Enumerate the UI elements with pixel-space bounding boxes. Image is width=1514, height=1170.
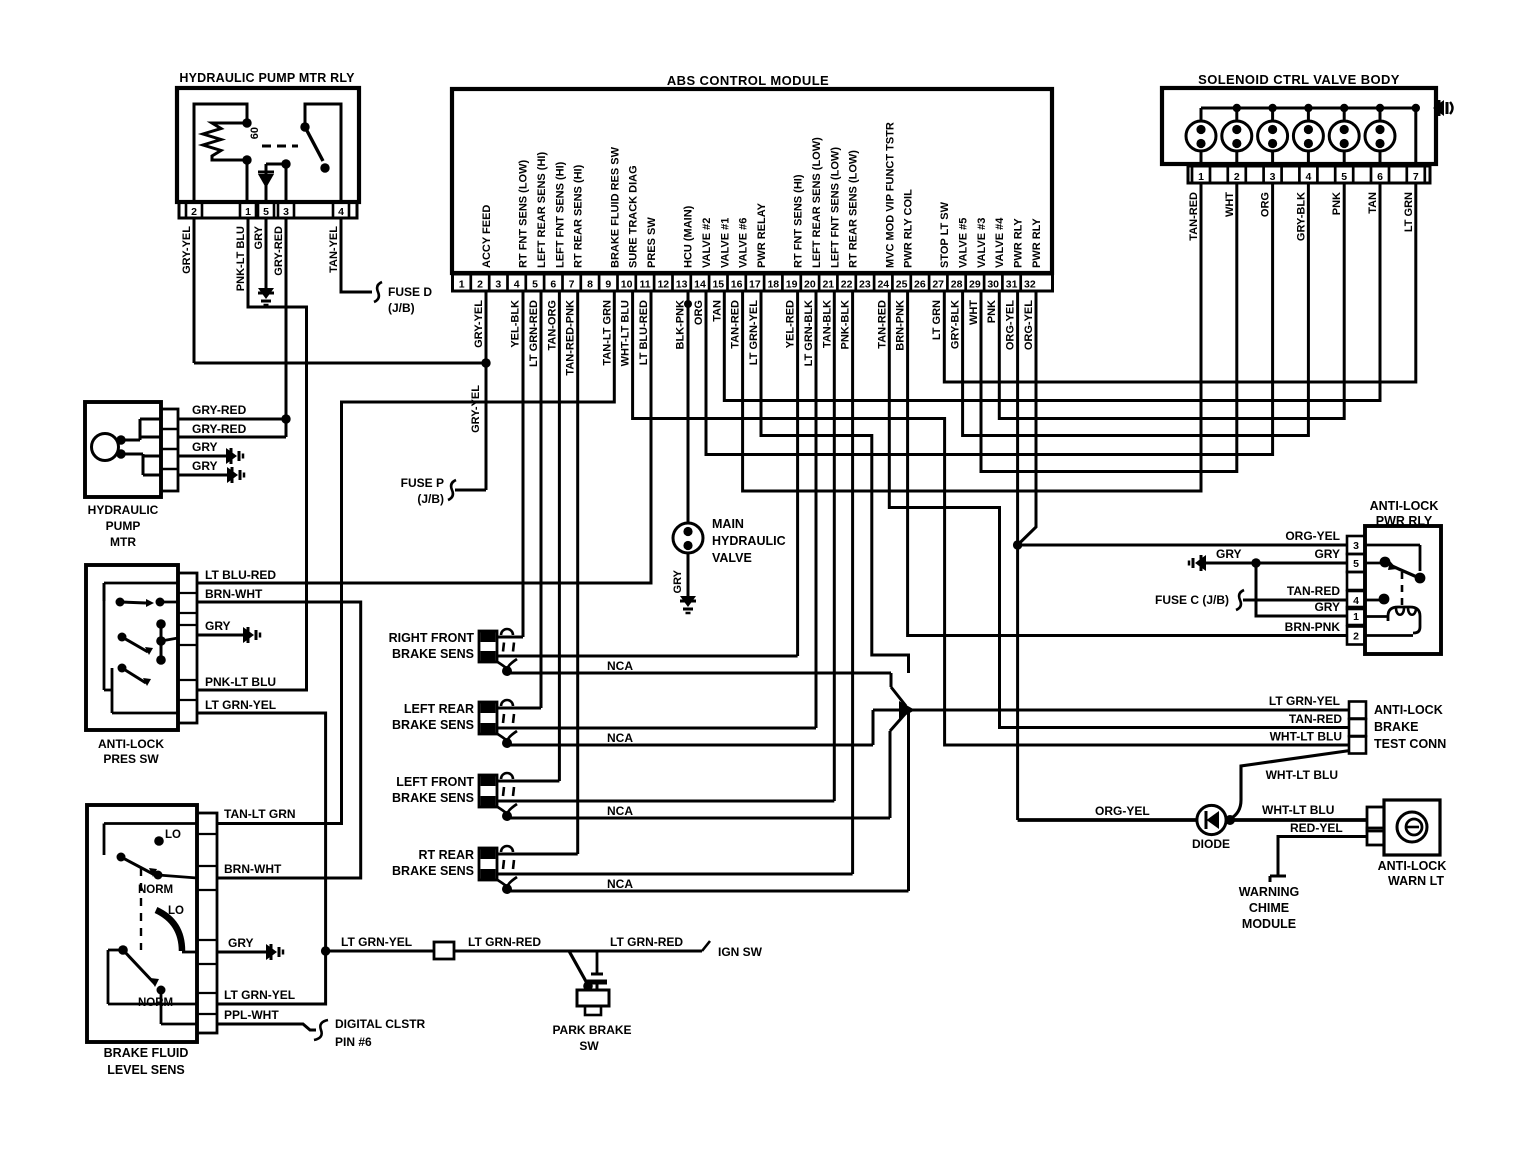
ABS pin 11 LT BLU-RED wire to pressure switch	[197, 291, 651, 583]
svg-text:GRY-RED: GRY-RED	[192, 403, 247, 417]
relay switch contacts	[305, 104, 341, 202]
svg-text:LT BLU-RED: LT BLU-RED	[638, 300, 650, 365]
svg-text:FUSE C (J/B): FUSE C (J/B)	[1155, 593, 1229, 607]
svg-text:ANTI-LOCK: ANTI-LOCK	[98, 737, 164, 751]
PPL-WHT wire to digital cluster	[217, 1024, 316, 1030]
pump GRY ground wire lower	[178, 474, 227, 477]
svg-text:ORG-YEL: ORG-YEL	[1095, 804, 1150, 818]
svg-text:GRY-YEL: GRY-YEL	[470, 385, 482, 433]
svg-text:TAN-RED: TAN-RED	[876, 300, 888, 349]
svg-text:GRY: GRY	[192, 440, 218, 454]
svg-text:NCA: NCA	[607, 659, 633, 673]
ABS module pin strip pins 1-32	[453, 274, 1053, 291]
brake fluid sensor float switches	[104, 822, 197, 825]
svg-text:BRN-PNK: BRN-PNK	[1285, 620, 1341, 634]
svg-text:IGN SW: IGN SW	[718, 945, 763, 959]
svg-text:TAN: TAN	[1367, 192, 1379, 214]
svg-text:DIGITAL CLSTR: DIGITAL CLSTR	[335, 1017, 426, 1031]
ABS pin 31 ORG-YEL wire	[1016, 291, 1019, 820]
svg-text:LT GRN-RED: LT GRN-RED	[468, 935, 541, 949]
svg-text:TAN-ORG: TAN-ORG	[546, 300, 558, 351]
power relay pin1 GRY wire	[1256, 563, 1347, 616]
svg-text:TAN-YEL: TAN-YEL	[328, 226, 340, 273]
svg-text:ORG: ORG	[1260, 192, 1272, 217]
svg-text:LO: LO	[168, 905, 184, 917]
svg-text:RT REAR: RT REAR	[418, 848, 474, 862]
svg-text:GRY: GRY	[192, 459, 218, 473]
svg-text:PWR RLY: PWR RLY	[1031, 218, 1043, 268]
main hydraulic valve GRY ground wire	[687, 553, 690, 596]
svg-text:WARN LT: WARN LT	[1388, 874, 1444, 888]
left front brake sensor signal wire	[497, 800, 834, 803]
svg-text:ORG-YEL: ORG-YEL	[1023, 300, 1035, 350]
svg-text:LT GRN-YEL: LT GRN-YEL	[748, 300, 760, 365]
LT GRN-YEL wire pressure switch to junction	[197, 713, 326, 1004]
svg-text:ORG-YEL: ORG-YEL	[1005, 300, 1017, 350]
svg-text:13: 13	[676, 279, 688, 291]
inline connector C1	[434, 942, 454, 959]
svg-text:LT GRN-RED: LT GRN-RED	[610, 935, 683, 949]
svg-text:1: 1	[1198, 171, 1204, 183]
solenoid body chassis ground symbol	[1433, 100, 1444, 116]
svg-text:23: 23	[859, 279, 871, 291]
svg-text:PIN #6: PIN #6	[335, 1035, 372, 1049]
pressure switch contacts	[104, 582, 178, 585]
svg-text:LEFT REAR SENS (LOW): LEFT REAR SENS (LOW)	[811, 137, 823, 268]
svg-text:1: 1	[1353, 611, 1359, 623]
svg-text:NCA: NCA	[607, 877, 633, 891]
svg-text:VALVE #1: VALVE #1	[719, 218, 731, 268]
svg-text:4: 4	[338, 206, 344, 218]
svg-text:2: 2	[1353, 631, 1359, 643]
relay pin1 PNK-LT BLU wire to pressure switch	[197, 218, 307, 690]
svg-text:MTR: MTR	[110, 535, 136, 549]
rt rear brake sensor	[479, 848, 497, 880]
left front NCA drain wire	[507, 817, 890, 820]
svg-text:LT GRN-YEL: LT GRN-YEL	[205, 698, 276, 712]
svg-text:GRY: GRY	[205, 619, 231, 633]
svg-text:31: 31	[1006, 279, 1018, 291]
solenoid ctrl valve body box	[1162, 88, 1436, 164]
svg-text:21: 21	[822, 279, 834, 291]
svg-text:RT FNT SENS (HI): RT FNT SENS (HI)	[793, 174, 805, 268]
relay pin strip pins 2 1 5 3 4	[179, 202, 357, 218]
svg-text:30: 30	[987, 279, 999, 291]
svg-text:12: 12	[657, 279, 669, 291]
svg-text:32: 32	[1024, 279, 1036, 291]
svg-text:LEFT FNT SENS (LOW): LEFT FNT SENS (LOW)	[829, 147, 841, 268]
svg-text:VALVE #4: VALVE #4	[994, 217, 1006, 268]
svg-text:ANTI-LOCK: ANTI-LOCK	[1374, 703, 1443, 717]
diode CR2	[1197, 805, 1226, 834]
svg-text:TAN-RED-PNK: TAN-RED-PNK	[565, 300, 577, 376]
svg-text:WHT: WHT	[968, 300, 980, 325]
svg-text:YEL-RED: YEL-RED	[785, 300, 797, 348]
ABS pin 6 TAN-ORG wire to left front sensor	[558, 291, 561, 781]
svg-text:SW: SW	[579, 1039, 599, 1053]
svg-text:TAN-LT GRN: TAN-LT GRN	[601, 300, 613, 366]
svg-text:RIGHT FRONT: RIGHT FRONT	[389, 631, 475, 645]
pressure switch connector	[178, 573, 197, 723]
svg-text:TAN-BLK: TAN-BLK	[821, 300, 833, 348]
svg-text:1: 1	[245, 206, 251, 218]
svg-text:BRAKE SENS: BRAKE SENS	[392, 718, 474, 732]
svg-text:2: 2	[477, 279, 483, 291]
svg-text:VALVE #5: VALVE #5	[958, 218, 970, 268]
svg-text:VALVE #2: VALVE #2	[701, 218, 713, 268]
svg-text:ORG-YEL: ORG-YEL	[1285, 529, 1340, 543]
svg-text:PNK: PNK	[986, 300, 998, 323]
pump GRY-RED wire upper	[178, 418, 286, 421]
svg-text:RT REAR SENS (LOW): RT REAR SENS (LOW)	[848, 150, 860, 268]
LT GRN-RED wire to ign switch	[597, 950, 702, 953]
svg-text:TAN-LT GRN: TAN-LT GRN	[224, 807, 296, 821]
svg-text:LT GRN-YEL: LT GRN-YEL	[1269, 694, 1340, 708]
ORG-YEL junction node	[1013, 540, 1022, 549]
svg-text:PARK BRAKE: PARK BRAKE	[552, 1023, 631, 1037]
GRY-YEL wire to fuse P	[455, 489, 486, 492]
park brake switch	[569, 951, 588, 985]
svg-text:TAN-RED: TAN-RED	[1287, 584, 1340, 598]
svg-text:6: 6	[1377, 171, 1383, 183]
svg-text:PUMP: PUMP	[106, 519, 141, 533]
RED-YEL wire to warning chime	[1278, 837, 1367, 877]
svg-text:29: 29	[969, 279, 981, 291]
svg-text:LT GRN-YEL: LT GRN-YEL	[224, 988, 295, 1002]
svg-text:BRAKE SENS: BRAKE SENS	[392, 791, 474, 805]
svg-text:HYDRAULIC: HYDRAULIC	[712, 534, 786, 548]
svg-text:15: 15	[712, 279, 724, 291]
svg-text:17: 17	[749, 279, 761, 291]
svg-text:DIODE: DIODE	[1192, 837, 1230, 851]
svg-text:20: 20	[804, 279, 816, 291]
svg-text:ORG: ORG	[693, 300, 705, 325]
svg-text:TAN-RED: TAN-RED	[730, 300, 742, 349]
GRY-YEL junction node	[481, 358, 490, 367]
svg-text:MODULE: MODULE	[1242, 917, 1296, 931]
svg-text:RED-YEL: RED-YEL	[1290, 821, 1343, 835]
svg-text:7: 7	[569, 279, 575, 291]
svg-text:LEFT REAR: LEFT REAR	[404, 702, 474, 716]
svg-text:GRY: GRY	[228, 936, 254, 950]
svg-text:ANTI-LOCK: ANTI-LOCK	[1370, 499, 1439, 513]
merged shield wire to test connector	[912, 709, 1349, 712]
diode output junction	[1226, 818, 1367, 822]
svg-text:NORM: NORM	[138, 884, 173, 896]
svg-text:WHT-LT BLU: WHT-LT BLU	[620, 300, 632, 366]
rt rear NCA drain wire	[507, 890, 909, 893]
ABS pin 29 WHT wire to solenoid 2	[981, 183, 1237, 472]
solenoid body pin strip 1-7	[1188, 166, 1430, 183]
ABS pin 25 BRN-PNK wire to power relay pin 2	[908, 291, 1346, 636]
svg-text:BRN-PNK: BRN-PNK	[895, 300, 907, 351]
svg-text:GRY-RED: GRY-RED	[273, 226, 285, 276]
hydraulic pump motor box	[85, 402, 161, 497]
svg-text:MVC MOD VIP FUNCT TSTR: MVC MOD VIP FUNCT TSTR	[884, 122, 896, 268]
GRY-RED junction node	[281, 414, 290, 423]
ABS pin 4 YEL-BLK wire to right front sensor	[522, 291, 525, 637]
svg-text:HYDRAULIC: HYDRAULIC	[88, 503, 159, 517]
svg-text:GRY: GRY	[1314, 547, 1340, 561]
svg-text:3: 3	[283, 206, 289, 218]
svg-text:18: 18	[767, 279, 779, 291]
svg-text:LT GRN-YEL: LT GRN-YEL	[341, 935, 412, 949]
svg-text:PNK-LT BLU: PNK-LT BLU	[235, 226, 247, 291]
left front brake sensor	[479, 775, 497, 807]
svg-text:MAIN: MAIN	[712, 517, 744, 531]
svg-text:6: 6	[550, 279, 556, 291]
svg-text:3: 3	[1353, 540, 1359, 552]
svg-text:11: 11	[639, 279, 650, 291]
svg-text:28: 28	[951, 279, 963, 291]
ABS pin 16 TAN-RED wire to solenoid 1	[743, 183, 1201, 491]
svg-text:PRES SW: PRES SW	[646, 217, 658, 268]
brake fluid sensor connector	[197, 813, 217, 1033]
svg-text:27: 27	[932, 279, 944, 291]
svg-text:WHT: WHT	[1224, 192, 1236, 217]
svg-text:25: 25	[896, 279, 908, 291]
svg-text:STOP LT SW: STOP LT SW	[939, 201, 951, 268]
svg-text:ABS CONTROL MODULE: ABS CONTROL MODULE	[667, 73, 829, 88]
svg-text:LEFT FRONT: LEFT FRONT	[396, 775, 474, 789]
LT GRN-YEL junction node	[321, 946, 330, 955]
svg-text:YEL-BLK: YEL-BLK	[510, 300, 522, 348]
svg-text:RT FNT SENS (LOW): RT FNT SENS (LOW)	[518, 160, 530, 268]
svg-text:10: 10	[621, 279, 633, 291]
svg-text:3: 3	[1270, 171, 1276, 183]
svg-text:5: 5	[532, 279, 538, 291]
svg-text:26: 26	[914, 279, 926, 291]
pump GRY-RED wire lower	[178, 436, 286, 439]
svg-text:FUSE P: FUSE P	[401, 476, 444, 490]
svg-text:PPL-WHT: PPL-WHT	[224, 1008, 279, 1022]
ABS control module box	[452, 89, 1052, 273]
left rear brake sensor	[479, 702, 497, 734]
svg-text:TAN: TAN	[711, 300, 723, 322]
brake fluid level sensor box	[87, 805, 197, 1042]
svg-text:VALVE #6: VALVE #6	[738, 218, 750, 268]
svg-text:WHT-LT BLU: WHT-LT BLU	[1270, 730, 1342, 744]
svg-text:TAN-RED: TAN-RED	[1289, 712, 1342, 726]
svg-text:PWR RLY: PWR RLY	[1013, 218, 1025, 268]
svg-text:SOLENOID CTRL VALVE BODY: SOLENOID CTRL VALVE BODY	[1198, 72, 1400, 87]
svg-text:GRY-BLK: GRY-BLK	[1295, 192, 1307, 241]
svg-text:PNK: PNK	[1331, 192, 1343, 215]
ABS pin 13 BLK-PNK wire to main hydraulic valve	[687, 291, 690, 524]
svg-text:LT GRN-BLK: LT GRN-BLK	[803, 300, 815, 366]
svg-text:NCA: NCA	[607, 804, 633, 818]
right front brake sensor signal wire	[497, 655, 798, 658]
ABS pin 2 GRY-YEL wire	[485, 291, 488, 490]
svg-text:5: 5	[1353, 558, 1359, 570]
ABS pin 7 TAN-RED-PNK wire to rt rear sensor	[576, 291, 579, 854]
LT GRN-RED wire to park brake tap	[454, 950, 597, 953]
svg-text:BLK-PNK: BLK-PNK	[675, 300, 687, 350]
svg-text:LT GRN: LT GRN	[1403, 192, 1415, 232]
svg-text:16: 16	[731, 279, 743, 291]
svg-text:GRY: GRY	[672, 569, 684, 593]
svg-text:GRY-RED: GRY-RED	[192, 422, 247, 436]
svg-text:4: 4	[1353, 595, 1359, 607]
anti-lock warn light	[1384, 800, 1440, 855]
solenoid body top bus wire	[1201, 107, 1416, 110]
svg-text:2: 2	[191, 206, 197, 218]
svg-text:BRAKE FLUID RES SW: BRAKE FLUID RES SW	[609, 146, 621, 268]
svg-text:GRY: GRY	[1216, 547, 1242, 561]
left rear NCA drain wire	[507, 744, 873, 747]
svg-text:RT REAR SENS (HI): RT REAR SENS (HI)	[573, 164, 585, 268]
svg-text:FUSE D: FUSE D	[388, 285, 432, 299]
svg-text:GRY-YEL: GRY-YEL	[181, 226, 193, 274]
svg-text:4: 4	[1305, 171, 1311, 183]
brake fluid GRY ground wire	[217, 951, 266, 954]
power relay GRY junction node	[1251, 558, 1260, 567]
power relay GRY ground wire	[1195, 555, 1206, 571]
pump motor connector	[161, 409, 178, 491]
svg-text:HCU (MAIN): HCU (MAIN)	[683, 205, 695, 268]
svg-text:24: 24	[877, 279, 889, 291]
right front NCA drain wire	[507, 672, 891, 675]
svg-text:5: 5	[263, 206, 269, 218]
svg-text:2: 2	[1234, 171, 1240, 183]
main hydraulic valve solenoid	[673, 523, 703, 553]
relay pin4 TAN-YEL wire to fuse D	[341, 218, 372, 292]
svg-text:BRAKE SENS: BRAKE SENS	[392, 647, 474, 661]
relay pin5 GRY ground wire	[265, 218, 268, 288]
svg-text:14: 14	[694, 279, 706, 291]
svg-text:GRY-YEL: GRY-YEL	[473, 300, 485, 348]
ABS pin 27 LT GRN wire to solenoid 7	[944, 183, 1416, 382]
relay diode CR1	[285, 164, 288, 202]
svg-text:LO: LO	[165, 829, 181, 841]
ORG-YEL wire to diode	[1018, 818, 1197, 822]
svg-text:HYDRAULIC PUMP MTR RLY: HYDRAULIC PUMP MTR RLY	[179, 71, 355, 85]
svg-text:BRN-WHT: BRN-WHT	[205, 587, 263, 601]
svg-text:GRY-BLK: GRY-BLK	[950, 300, 962, 349]
svg-text:LEFT FNT SENS (HI): LEFT FNT SENS (HI)	[554, 161, 566, 268]
svg-text:WHT-LT BLU: WHT-LT BLU	[1262, 803, 1334, 817]
svg-text:LT GRN: LT GRN	[931, 300, 943, 340]
WHT-LT BLU branch wire to test connector	[1230, 751, 1350, 820]
svg-text:LEFT REAR SENS (HI): LEFT REAR SENS (HI)	[536, 152, 548, 268]
svg-text:VALVE: VALVE	[712, 551, 752, 565]
BRN-WHT wire pressure switch to brake fluid sensor	[197, 602, 361, 878]
ORG-YEL wire to power relay pin 3	[1018, 544, 1346, 547]
ABS pin 15 TAN wire to solenoid 6	[724, 183, 1380, 401]
svg-text:WHT-LT BLU: WHT-LT BLU	[1266, 768, 1338, 782]
svg-text:BRAKE SENS: BRAKE SENS	[392, 864, 474, 878]
svg-text:8: 8	[587, 279, 593, 291]
rt rear brake sensor signal wire	[497, 873, 853, 876]
svg-text:ACCY FEED: ACCY FEED	[481, 205, 493, 268]
ABS pin 10 WHT-LT BLU wire to test connector	[633, 291, 1349, 745]
power relay terminal pins 3 5 4 1 2	[1347, 536, 1365, 554]
svg-text:60: 60	[249, 127, 261, 139]
svg-text:3: 3	[495, 279, 501, 291]
anti-lock brake test connector	[1349, 702, 1366, 719]
pump motor M1 symbol	[92, 434, 119, 461]
power relay internal contacts	[1365, 544, 1420, 547]
svg-text:ANTI-LOCK: ANTI-LOCK	[1378, 859, 1447, 873]
svg-text:TEST CONN: TEST CONN	[1374, 737, 1446, 751]
ABS pin 32 ORG-YEL wire	[1018, 291, 1036, 545]
svg-text:PWR RLY COIL: PWR RLY COIL	[903, 189, 915, 268]
anti-lock power relay box	[1365, 526, 1441, 654]
svg-text:BRN-WHT: BRN-WHT	[224, 862, 282, 876]
svg-text:19: 19	[786, 279, 798, 291]
NCA merge junction with arrow	[890, 673, 893, 687]
relay coil K1	[194, 104, 247, 202]
svg-text:NCA: NCA	[607, 731, 633, 745]
svg-text:LEVEL SENS: LEVEL SENS	[107, 1063, 185, 1077]
svg-text:BRAKE: BRAKE	[1374, 720, 1418, 734]
pressure switch GRY ground wire	[197, 634, 243, 637]
hydraulic pump motor relay box	[177, 88, 359, 202]
svg-text:PRES SW: PRES SW	[103, 752, 159, 766]
ABS pin 14 ORG wire to solenoid 3	[706, 183, 1273, 455]
svg-text:TAN-RED: TAN-RED	[1188, 192, 1200, 241]
svg-text:VALVE #3: VALVE #3	[976, 218, 988, 268]
svg-text:22: 22	[841, 279, 853, 291]
svg-text:PNK-BLK: PNK-BLK	[840, 300, 852, 350]
ABS pin 9 TAN-LT GRN wire to brake fluid sensor	[217, 291, 614, 824]
svg-text:4: 4	[514, 279, 520, 291]
svg-text:BRAKE FLUID: BRAKE FLUID	[104, 1046, 189, 1060]
svg-text:5: 5	[1341, 171, 1347, 183]
ABS pin 24 TAN-RED wire to test connector	[889, 291, 1349, 728]
ABS pin 17 LT GRN-YEL wire to merge node	[761, 291, 909, 673]
svg-text:9: 9	[605, 279, 611, 291]
solenoid coils 1-6 with terminals	[1186, 121, 1216, 151]
ABS pin 5 LT GRN-RED wire to left rear sensor	[540, 291, 543, 708]
svg-text:LT BLU-RED: LT BLU-RED	[205, 568, 276, 582]
right front brake sensor	[479, 631, 497, 662]
svg-text:GRY: GRY	[253, 225, 265, 249]
svg-text:GRY: GRY	[1314, 600, 1340, 614]
GRY-YEL wire to pump relay pin 2	[193, 218, 196, 363]
svg-text:1: 1	[459, 279, 465, 291]
svg-text:(J/B): (J/B)	[388, 301, 415, 315]
svg-text:WARNING: WARNING	[1239, 885, 1299, 899]
svg-text:(J/B): (J/B)	[417, 492, 444, 506]
svg-text:PWR RLY: PWR RLY	[1376, 514, 1433, 528]
fuse C TAN-RED wire to power relay pin 4	[1243, 599, 1347, 602]
svg-text:CHIME: CHIME	[1249, 901, 1289, 915]
svg-text:7: 7	[1413, 171, 1419, 183]
LT GRN-YEL wire to inline connector	[326, 950, 434, 953]
anti-lock pressure switch box	[86, 565, 178, 730]
pump GRY ground wire upper	[178, 455, 226, 458]
svg-text:SURE TRACK DIAG: SURE TRACK DIAG	[628, 165, 640, 268]
svg-text:LT GRN-RED: LT GRN-RED	[528, 300, 540, 367]
relay pin3 GRY-RED wire	[285, 218, 288, 437]
svg-text:PWR RELAY: PWR RELAY	[756, 202, 768, 268]
ABS pin 30 PNK wire to solenoid 5	[999, 183, 1344, 419]
svg-text:PNK-LT BLU: PNK-LT BLU	[205, 675, 276, 689]
left rear brake sensor signal wire	[497, 727, 816, 730]
ABS pin 28 GRY-BLK wire to solenoid 4	[963, 183, 1309, 436]
